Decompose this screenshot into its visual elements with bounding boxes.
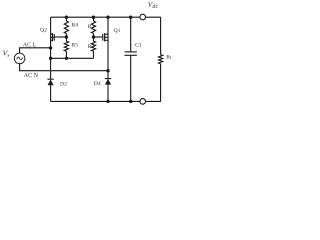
svg-text:R3: R3 — [88, 44, 95, 50]
resistor R3 — [91, 37, 95, 58]
svg-text:AC N: AC N — [24, 73, 39, 79]
wire Q1 gate lead — [94, 36, 103, 38]
wire Q2 drain (top rail corner down to Q2) — [50, 17, 52, 34]
svg-text:RL: RL — [166, 54, 173, 60]
wire AC L (source top lead to node A) — [20, 48, 51, 53]
node bottom rail D4 junction — [106, 100, 109, 103]
diode D4 — [105, 79, 111, 85]
wire D2 anode to bottom rail — [50, 85, 52, 101]
resistor R2 — [91, 17, 95, 37]
svg-text:D2: D2 — [60, 81, 67, 87]
wire node B down to D4 cathode — [107, 71, 109, 79]
node cross-tie junction dot — [49, 57, 52, 60]
svg-text:Vdc: Vdc — [148, 0, 159, 10]
node top rail C1 junction — [129, 16, 132, 19]
svg-text:R5: R5 — [72, 42, 79, 48]
capacitor C1 — [125, 17, 137, 101]
node B (AC N junction dot) — [106, 69, 109, 72]
transistor Q1 — [103, 33, 108, 42]
svg-text:R2: R2 — [88, 24, 95, 30]
transistor Q2 — [51, 33, 55, 42]
wire D4 anode to bottom rail — [107, 84, 109, 101]
node R5 bottom junction dot on cross-tie wire — [65, 57, 68, 60]
wire node A down to D2 cathode (crosses AC N) — [50, 58, 52, 79]
node top rail Q1 drain junction — [106, 16, 109, 19]
wire cross-tie (node A to R3 bottom) — [51, 57, 94, 59]
resistor R5 — [64, 37, 68, 58]
wire Q1 drain down from top rail — [107, 17, 109, 34]
node top rail R4 junction — [65, 16, 68, 19]
terminal Vdc- (open circle on bottom rail) — [140, 99, 146, 105]
wire Q2 source down to node A — [50, 40, 52, 48]
node A (AC L junction dot) — [49, 46, 52, 49]
node Q2 gate / R4-R5 midpoint dot — [65, 35, 68, 38]
wire node A down to cross-tie node — [50, 48, 52, 58]
AC source Vs — [14, 53, 25, 64]
svg-text:D4: D4 — [94, 81, 101, 87]
node Q1 gate / R2-R3 midpoint dot — [92, 35, 95, 38]
diode D2 — [47, 79, 53, 85]
terminal Vdc+ (open circle on top rail) — [140, 14, 146, 20]
svg-text:C1: C1 — [135, 43, 142, 49]
svg-text:Vs: Vs — [3, 49, 10, 59]
wire bottom rail (V- bus) — [51, 100, 161, 102]
node top rail R2 junction — [92, 16, 95, 19]
wire AC N (source bottom lead to node B) — [20, 64, 108, 71]
wire top rail (V+ bus) — [51, 16, 161, 18]
resistor R4 — [64, 17, 68, 37]
svg-text:Q1: Q1 — [114, 28, 121, 34]
svg-text:Q2: Q2 — [40, 28, 47, 34]
node bottom rail C1 junction — [129, 100, 132, 103]
wire Q2 gate lead — [54, 36, 66, 38]
svg-text:AC L: AC L — [23, 42, 37, 48]
load RL — [159, 17, 163, 101]
wire Q1 source down to node B — [107, 40, 109, 70]
svg-text:R4: R4 — [72, 23, 79, 29]
